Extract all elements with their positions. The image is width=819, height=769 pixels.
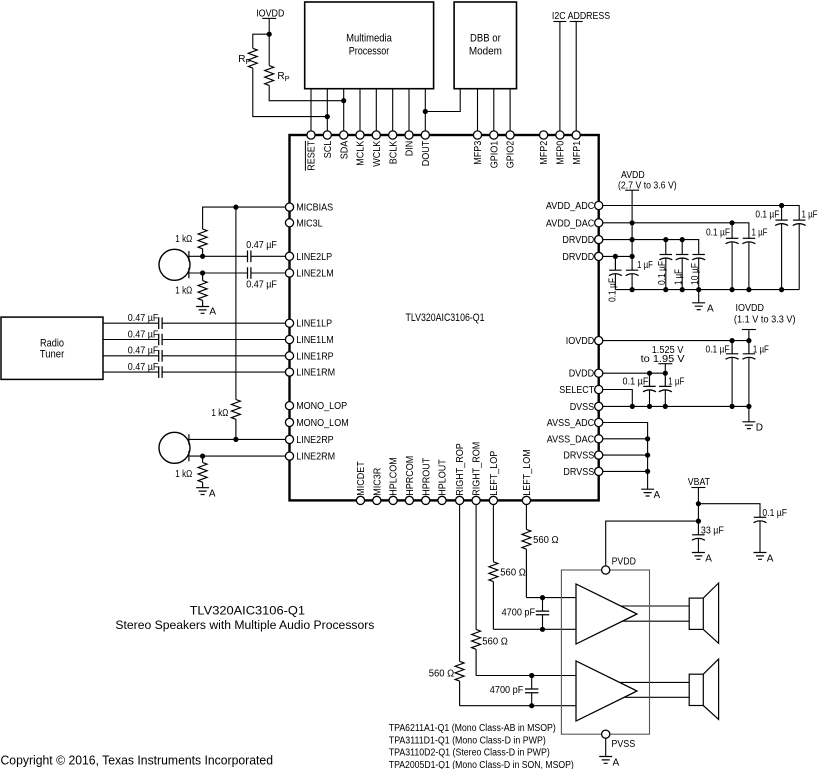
- pin HPLOUT (bottom): [438, 496, 446, 504]
- capacitor C 0.47uF LINE1LM: [159, 334, 162, 346]
- svg-text:Tuner: Tuner: [40, 349, 65, 361]
- pin MICDET (bottom): [356, 496, 364, 504]
- speaker SPK1: [689, 598, 703, 629]
- pin AVDD_ADC (right): [595, 201, 603, 209]
- wire MFP3 to DBB: [477, 89, 479, 132]
- svg-text:A: A: [654, 490, 661, 501]
- microphone MIC2: [159, 432, 190, 463]
- junction MICBIAS tap: [233, 205, 238, 210]
- svg-text:DBB or: DBB or: [470, 33, 501, 45]
- ground analog gnd AVSS: [641, 489, 654, 496]
- svg-text:560 Ω: 560 Ω: [429, 669, 455, 680]
- wire MICBIAS net: [203, 207, 286, 229]
- svg-text:DOUT: DOUT: [421, 141, 432, 167]
- wire amp2 in- wire: [460, 705, 577, 707]
- pin LEFT_LOP (bottom): [489, 496, 497, 504]
- wire AVDD vertical: [631, 190, 633, 266]
- wire amp1 in+ wire: [526, 597, 577, 599]
- svg-text:4700 pF: 4700 pF: [502, 607, 535, 618]
- pin MIC3L (left): [285, 219, 293, 227]
- junction AVDD-AVDD_DAC: [630, 220, 635, 225]
- svg-text:Radio: Radio: [40, 337, 64, 349]
- wire I2C to MFP1: [575, 22, 577, 132]
- pin PVSS: [602, 730, 610, 738]
- svg-text:TLV320AIC3106-Q1: TLV320AIC3106-Q1: [190, 604, 306, 618]
- svg-text:DVDD: DVDD: [569, 369, 595, 380]
- svg-text:MONO_LOP: MONO_LOP: [296, 401, 347, 412]
- pin DVDD (right): [595, 369, 603, 377]
- capacitor C 0.47uF LINE1RP: [159, 350, 162, 362]
- capacitor C 0.47uF LINE1LP: [159, 317, 162, 329]
- wire SDA to processor: [343, 89, 345, 132]
- svg-text:RP: RP: [238, 54, 250, 66]
- svg-text:TPA3110D2-Q1 (Stereo Class-D i: TPA3110D2-Q1 (Stereo Class-D in PWP): [389, 748, 550, 759]
- svg-text:LINE2RP: LINE2RP: [296, 435, 334, 446]
- svg-text:A: A: [707, 304, 714, 315]
- svg-text:1 µF: 1 µF: [752, 228, 768, 239]
- svg-text:MFP3: MFP3: [473, 140, 484, 164]
- pin LINE1RP (left): [285, 352, 293, 360]
- svg-text:1 kΩ: 1 kΩ: [175, 286, 192, 297]
- resistor R 560 RIGHT_ROP: [455, 661, 464, 705]
- pin LINE2LM (left): [285, 269, 293, 277]
- svg-text:1 kΩ: 1 kΩ: [211, 408, 228, 419]
- pin AVSS_ADC (right): [595, 418, 603, 426]
- pin LINE2RM (left): [285, 452, 293, 460]
- svg-text:MFP0: MFP0: [556, 140, 567, 164]
- svg-text:LINE2LM: LINE2LM: [296, 269, 334, 280]
- junction R4-LINE2RM: [200, 454, 205, 459]
- junction rail-748.9: [746, 287, 751, 292]
- svg-text:HPRCOM: HPRCOM: [405, 456, 416, 496]
- ground analog gnd C33 VBAT: [692, 553, 705, 560]
- resistor R 1 kOhm (MICBIAS to LINE2LP): [198, 229, 207, 256]
- pin BCLK (top): [389, 131, 397, 139]
- junction rail-781.6: [779, 287, 784, 292]
- pin DRVSS (right): [595, 467, 603, 475]
- svg-text:1 kΩ: 1 kΩ: [175, 469, 192, 480]
- junction DRVDD-C01b: [663, 237, 668, 242]
- amplifier output lines amp2: [615, 682, 689, 697]
- wire LEFT_LOM drop: [525, 505, 527, 530]
- wire DRVDD2 row: [603, 255, 632, 257]
- wire DVDD row: [603, 372, 666, 374]
- svg-text:DRVSS: DRVSS: [563, 467, 594, 478]
- RESET overline: [304, 141, 306, 171]
- svg-text:DVSS: DVSS: [570, 402, 595, 413]
- junction avss-dac: [645, 436, 650, 441]
- capacitor C 0.1uF VBAT: [754, 516, 766, 518]
- junction drvss2: [645, 469, 650, 474]
- pin DVSS (right): [595, 402, 603, 410]
- wire AVSS_ADC wire: [603, 423, 648, 490]
- pin WCLK (top): [372, 131, 380, 139]
- wire tuner to LINE1RM: [103, 371, 285, 373]
- pin MONO_LOM (left): [285, 418, 293, 426]
- wire VBAT drop: [697, 488, 699, 535]
- junction AVDD_ADC-C01: [779, 203, 784, 208]
- svg-text:0.1 µF: 0.1 µF: [623, 376, 649, 387]
- pin MFP2 (top): [540, 131, 548, 139]
- svg-text:0.47 µF: 0.47 µF: [128, 329, 159, 340]
- svg-text:MICDET: MICDET: [356, 461, 367, 496]
- wire C trio stub2: [681, 240, 683, 255]
- junction RP-SDA: [341, 98, 346, 103]
- wire IOVDD drop: [748, 330, 750, 341]
- wire amp1 in- wire: [493, 628, 577, 630]
- svg-text:Stereo Speakers with Multiple: Stereo Speakers with Multiple Audio Proc…: [115, 618, 374, 632]
- svg-text:10 µF: 10 µF: [690, 263, 701, 285]
- svg-text:DRVDD: DRVDD: [562, 252, 594, 263]
- svg-text:MIC3R: MIC3R: [372, 468, 383, 496]
- pin LINE1RM (left): [285, 368, 293, 376]
- svg-text:0.1 µF: 0.1 µF: [706, 345, 730, 356]
- svg-text:LEFT_LOP: LEFT_LOP: [489, 450, 500, 495]
- wire WCLK to processor: [375, 89, 377, 132]
- capacitor C 0.1uF DVDD: [643, 373, 655, 386]
- pin MFP0 (top): [556, 131, 564, 139]
- ground analog gnd mic1: [196, 307, 209, 314]
- svg-text:DIN: DIN: [405, 141, 416, 157]
- pin SDA (top): [340, 131, 348, 139]
- wire BCLK to processor: [392, 89, 394, 132]
- svg-text:A: A: [613, 757, 620, 768]
- wire PVSS to gnd: [605, 738, 607, 756]
- wire LINE2LM wire: [189, 272, 286, 274]
- capacitor C 10uF DRVDD: [693, 254, 705, 256]
- wire C trio stub1: [665, 240, 667, 255]
- pin LINE2RP (left): [285, 435, 293, 443]
- resistor R 560 LEFT_LOP: [489, 562, 498, 630]
- svg-text:(1.1 V to 3.3 V): (1.1 V to 3.3 V): [734, 314, 796, 325]
- wire RP right to SDA: [269, 85, 344, 100]
- svg-text:TPA2005D1-Q1 (Mono Class-D in: TPA2005D1-Q1 (Mono Class-D in SON, MSOP): [389, 760, 574, 769]
- svg-text:DRVSS: DRVSS: [563, 451, 594, 462]
- capacitor C 1uF IOVDD: [743, 341, 755, 354]
- svg-text:AVDD_DAC: AVDD_DAC: [546, 218, 594, 229]
- junction vbat-pvdd: [696, 519, 701, 524]
- wire RP left to SCL: [253, 68, 327, 117]
- resistor RP (SDA pull-up): [265, 66, 274, 86]
- svg-text:RESET: RESET: [307, 141, 318, 171]
- wire DRVDD row: [603, 240, 699, 255]
- capacitor C 1uF AVDD: [626, 267, 638, 271]
- capacitor C 0.1uF AVDD_DAC: [726, 237, 738, 239]
- svg-text:AVSS_ADC: AVSS_ADC: [547, 418, 594, 429]
- power bar IOVDD top: [262, 17, 276, 19]
- box DBB or Modem: [454, 2, 516, 89]
- junction AVDD-DRVDD1: [630, 237, 635, 242]
- wire LEFT_LOP drop: [492, 505, 494, 562]
- svg-text:0.1 µF: 0.1 µF: [755, 210, 779, 221]
- wire AVDD gnd rail: [615, 289, 799, 291]
- microphone MIC1: [159, 249, 190, 280]
- resistor R 560 LEFT_LOM: [522, 529, 531, 597]
- wire rail gnd stub: [698, 290, 700, 303]
- svg-text:1 µF: 1 µF: [668, 376, 684, 387]
- wire GPIO2 to DBB: [509, 89, 511, 132]
- wire LINE2LP wire: [189, 255, 286, 257]
- pin LINE1LP (left): [285, 319, 293, 327]
- junction DVDD-C1: [663, 371, 668, 376]
- svg-text:TPA6211A1-Q1 (Mono Class-AB in: TPA6211A1-Q1 (Mono Class-AB in MSOP): [389, 723, 556, 734]
- svg-text:560 Ω: 560 Ω: [482, 637, 508, 648]
- power bar AVDD: [625, 189, 639, 191]
- svg-text:D: D: [756, 423, 763, 434]
- junction IOVDD split: [267, 32, 272, 37]
- svg-text:DRVDD: DRVDD: [562, 235, 594, 246]
- svg-text:0.47 µF: 0.47 µF: [246, 280, 277, 291]
- wire AVDD_ADC row: [603, 206, 799, 221]
- svg-text:A: A: [209, 307, 216, 318]
- svg-text:A: A: [767, 553, 774, 564]
- svg-text:Modem: Modem: [469, 46, 502, 58]
- svg-text:PVDD: PVDD: [612, 557, 636, 568]
- capacitor C 1uF AVDD_DAC: [743, 237, 755, 239]
- junction dvss-732.1: [730, 404, 735, 409]
- pin DOUT (top): [421, 131, 429, 139]
- svg-text:HPLCOM: HPLCOM: [389, 457, 400, 496]
- svg-text:Multimedia: Multimedia: [346, 33, 392, 45]
- svg-text:GPIO2: GPIO2: [506, 140, 517, 168]
- wire IOVDD stub: [268, 18, 270, 34]
- svg-text:LINE1LM: LINE1LM: [296, 335, 334, 346]
- junction c4700a-bot: [540, 627, 545, 632]
- ground digital gnd D: [742, 422, 755, 429]
- svg-text:SDA: SDA: [339, 140, 350, 159]
- op-amp A1 (top power amp): [576, 584, 637, 644]
- junction drvss1: [645, 453, 650, 458]
- pin SELECT (right): [595, 385, 603, 393]
- IC U1 TLV320AIC3106-Q1 body: [290, 135, 599, 500]
- pin MFP3 (top): [473, 131, 481, 139]
- wire DBB to DOUT elbow: [425, 89, 460, 112]
- svg-text:PVSS: PVSS: [611, 739, 635, 750]
- svg-text:0.47 µF: 0.47 µF: [128, 346, 159, 357]
- box Multimedia Processor: [305, 2, 434, 89]
- wire AVDD_DAC row: [603, 223, 749, 239]
- svg-text:VBAT: VBAT: [688, 477, 710, 488]
- power bar IOVDD right: [742, 329, 756, 331]
- wire DVSS row: [603, 406, 749, 421]
- capacitor C 0.47uF LINE2LP: [248, 251, 251, 263]
- wire SELECT to DVSS: [603, 390, 633, 407]
- pin MONO_LOP (left): [285, 402, 293, 410]
- wire SCL to processor: [326, 89, 328, 132]
- pin HPRCOM (bottom): [405, 496, 413, 504]
- junction IOVDD-C1: [746, 338, 751, 343]
- power bar DVDD: [658, 363, 672, 365]
- wire VBAT to C 0.1uF: [698, 504, 760, 518]
- resistor R 1 kOhm (LINE2RM to gnd): [198, 456, 207, 488]
- resistor R 1 kOhm (MICBIAS to LINE2RP): [231, 400, 240, 440]
- pin RIGHT_ROP (bottom): [456, 496, 464, 504]
- svg-text:TLV320AIC3106-Q1: TLV320AIC3106-Q1: [406, 312, 485, 324]
- capacitor C 1uF AVDD_ADC: [793, 219, 805, 221]
- wire DRVSS2 wire: [603, 470, 648, 472]
- svg-text:IOVDD: IOVDD: [566, 336, 595, 347]
- wire RP left branch: [253, 34, 269, 48]
- pin DRVSS (right): [595, 451, 603, 459]
- wire RIGHT_ROM drop: [475, 505, 477, 630]
- junction AVDD-DRVDD2: [630, 254, 635, 259]
- svg-text:SELECT: SELECT: [559, 385, 594, 396]
- pin AVSS_DAC (right): [595, 435, 603, 443]
- pin PVDD: [602, 566, 610, 574]
- junction DRVDD2-C01: [613, 254, 618, 259]
- svg-text:LINE2LP: LINE2LP: [296, 252, 332, 263]
- capacitor C 4700pF amp2: [531, 676, 533, 706]
- svg-text:A: A: [209, 488, 216, 499]
- wire DOUT to processor: [424, 89, 426, 132]
- svg-text:1 µF: 1 µF: [637, 260, 653, 271]
- junction DRVDD-C1b: [680, 237, 685, 242]
- svg-text:BCLK: BCLK: [388, 140, 399, 164]
- pin LEFT_LOM (bottom): [522, 496, 530, 504]
- op-amp A2 (bottom power amp): [576, 661, 637, 721]
- svg-text:0.47 µF: 0.47 µF: [128, 362, 159, 373]
- junction DVDD-C01: [647, 371, 652, 376]
- wire C dac stub1: [731, 223, 733, 239]
- junction dvss-748: [746, 404, 751, 409]
- wire tuner to LINE1RP: [103, 355, 285, 357]
- pin HPLCOM (bottom): [389, 496, 397, 504]
- resistor RP (SCL pull-up): [248, 48, 257, 68]
- capacitor C 0.1uF DRVDD2: [609, 256, 621, 270]
- svg-text:MCLK: MCLK: [356, 140, 367, 165]
- svg-text:WCLK: WCLK: [372, 140, 383, 166]
- wire IOVDD row: [603, 340, 749, 342]
- junction dvss-649.5: [647, 404, 652, 409]
- svg-text:1 µF: 1 µF: [673, 269, 684, 285]
- wire DRVSS1 wire: [603, 454, 648, 456]
- pin IOVDD (right): [595, 337, 603, 345]
- wire LINE2RM wire: [189, 455, 286, 457]
- wire C adc stub1: [781, 206, 783, 221]
- svg-text:A: A: [705, 553, 712, 564]
- wire VBAT to PVDD: [606, 521, 699, 566]
- svg-text:RIGHT_ROM: RIGHT_ROM: [472, 442, 483, 496]
- power bar I2C bar MFP0: [553, 21, 566, 23]
- svg-text:0.1 µF: 0.1 µF: [762, 508, 787, 519]
- svg-text:LINE1RP: LINE1RP: [296, 351, 334, 362]
- pin MIC3R (bottom): [373, 496, 381, 504]
- pin MCLK (top): [356, 131, 364, 139]
- capacitor C 1uF DVDD: [659, 373, 671, 386]
- wire RP right branch: [268, 34, 270, 65]
- svg-text:SCL: SCL: [323, 140, 334, 158]
- junction vbat-c01: [696, 501, 701, 506]
- svg-text:LINE2RM: LINE2RM: [296, 452, 335, 463]
- svg-text:0.47 µF: 0.47 µF: [246, 240, 277, 251]
- resistor R 560 RIGHT_ROM: [472, 630, 481, 676]
- capacitor C 0.1uF AVDD_ADC: [775, 219, 787, 221]
- capacitor C 33uF VBAT: [692, 534, 704, 536]
- svg-text:33 µF: 33 µF: [701, 525, 724, 536]
- wire LINE2RP wire: [189, 438, 286, 440]
- pin AVDD_DAC (right): [595, 219, 603, 227]
- pin MICBIAS (left): [285, 203, 293, 211]
- ground analog gnd PVSS: [599, 757, 612, 764]
- svg-text:Processor: Processor: [349, 46, 390, 58]
- wire DIN to processor: [408, 89, 410, 132]
- svg-text:AVSS_DAC: AVSS_DAC: [547, 434, 594, 445]
- svg-text:LINE1LP: LINE1LP: [296, 319, 332, 330]
- svg-text:HPROUT: HPROUT: [421, 458, 432, 496]
- svg-text:MFP1: MFP1: [572, 140, 583, 164]
- pin HPROUT (bottom): [422, 496, 430, 504]
- junction rail-665.8: [663, 287, 668, 292]
- svg-text:to 1.95 V: to 1.95 V: [641, 354, 685, 365]
- wire MCLK to processor: [359, 89, 361, 132]
- pin SCL (top): [323, 131, 331, 139]
- svg-text:LINE1RM: LINE1RM: [296, 368, 335, 379]
- wire tuner to LINE1LP: [103, 322, 285, 324]
- pin DRVDD (right): [595, 236, 603, 244]
- junction R3-LINE2RP: [233, 437, 238, 442]
- junction IOVDD-C01: [730, 338, 735, 343]
- pin DIN (top): [405, 131, 413, 139]
- power bar VBAT: [691, 487, 705, 489]
- svg-text:560 Ω: 560 Ω: [500, 567, 526, 578]
- pin DRVDD (right): [595, 252, 603, 260]
- resistor R 1 kOhm (LINE2LM to gnd): [198, 273, 207, 307]
- pin MFP1 (top): [572, 131, 580, 139]
- svg-text:1 µF: 1 µF: [802, 210, 818, 221]
- wire amp2 in+ wire: [476, 675, 577, 677]
- svg-text:RIGHT_ROP: RIGHT_ROP: [455, 443, 466, 496]
- svg-text:560 Ω: 560 Ω: [533, 535, 559, 546]
- junction c4700a-top: [540, 595, 545, 600]
- svg-text:AVDD_ADC: AVDD_ADC: [546, 201, 594, 212]
- wire I2C to MFP0: [559, 22, 561, 132]
- pin LINE2LP (left): [285, 252, 293, 260]
- junction rail-632.1: [630, 287, 635, 292]
- svg-text:MICBIAS: MICBIAS: [296, 203, 333, 214]
- capacitor C 0.1uF IOVDD: [726, 341, 738, 354]
- junction rail-732.1: [730, 287, 735, 292]
- pin RESET (top): [307, 131, 315, 139]
- ground analog gnd C0.1 VBAT: [754, 553, 767, 560]
- pin GPIO2 (top): [506, 131, 514, 139]
- svg-text:GPIO1: GPIO1: [489, 140, 500, 168]
- svg-text:1 kΩ: 1 kΩ: [175, 234, 192, 245]
- capacitor C 0.47uF LINE1RM: [159, 366, 162, 378]
- capacitor C 1uF DRVDD: [676, 254, 688, 256]
- svg-text:HPLOUT: HPLOUT: [438, 459, 449, 496]
- junction rail-682.2: [680, 287, 685, 292]
- svg-text:TPA3111D1-Q1 (Mono Class-D in: TPA3111D1-Q1 (Mono Class-D in PWP): [389, 735, 546, 746]
- svg-text:0.47 µF: 0.47 µF: [128, 313, 159, 324]
- wire MICBIAS drop: [235, 207, 237, 399]
- svg-text:LEFT_LOM: LEFT_LOM: [522, 449, 533, 496]
- capacitor C 4700pF amp1: [542, 598, 544, 630]
- wire RESET to processor: [310, 89, 312, 132]
- svg-text:MIC3L: MIC3L: [296, 218, 323, 229]
- wire AVSS_DAC wire: [603, 438, 648, 440]
- svg-text:MFP2: MFP2: [539, 140, 550, 164]
- speaker SPK2: [689, 674, 703, 705]
- svg-text:I2C ADDRESS: I2C ADDRESS: [552, 11, 611, 22]
- junction c4700b-bot: [529, 703, 534, 708]
- wire tuner to LINE1LM: [103, 339, 285, 341]
- svg-text:0.1 µF: 0.1 µF: [657, 261, 668, 285]
- junction dvss-665.3: [663, 404, 668, 409]
- pin GPIO1 (top): [490, 131, 498, 139]
- svg-text:IOVDD: IOVDD: [736, 303, 765, 314]
- box audio power amplifier: [561, 570, 649, 734]
- power bar I2C bar MFP1: [570, 21, 583, 23]
